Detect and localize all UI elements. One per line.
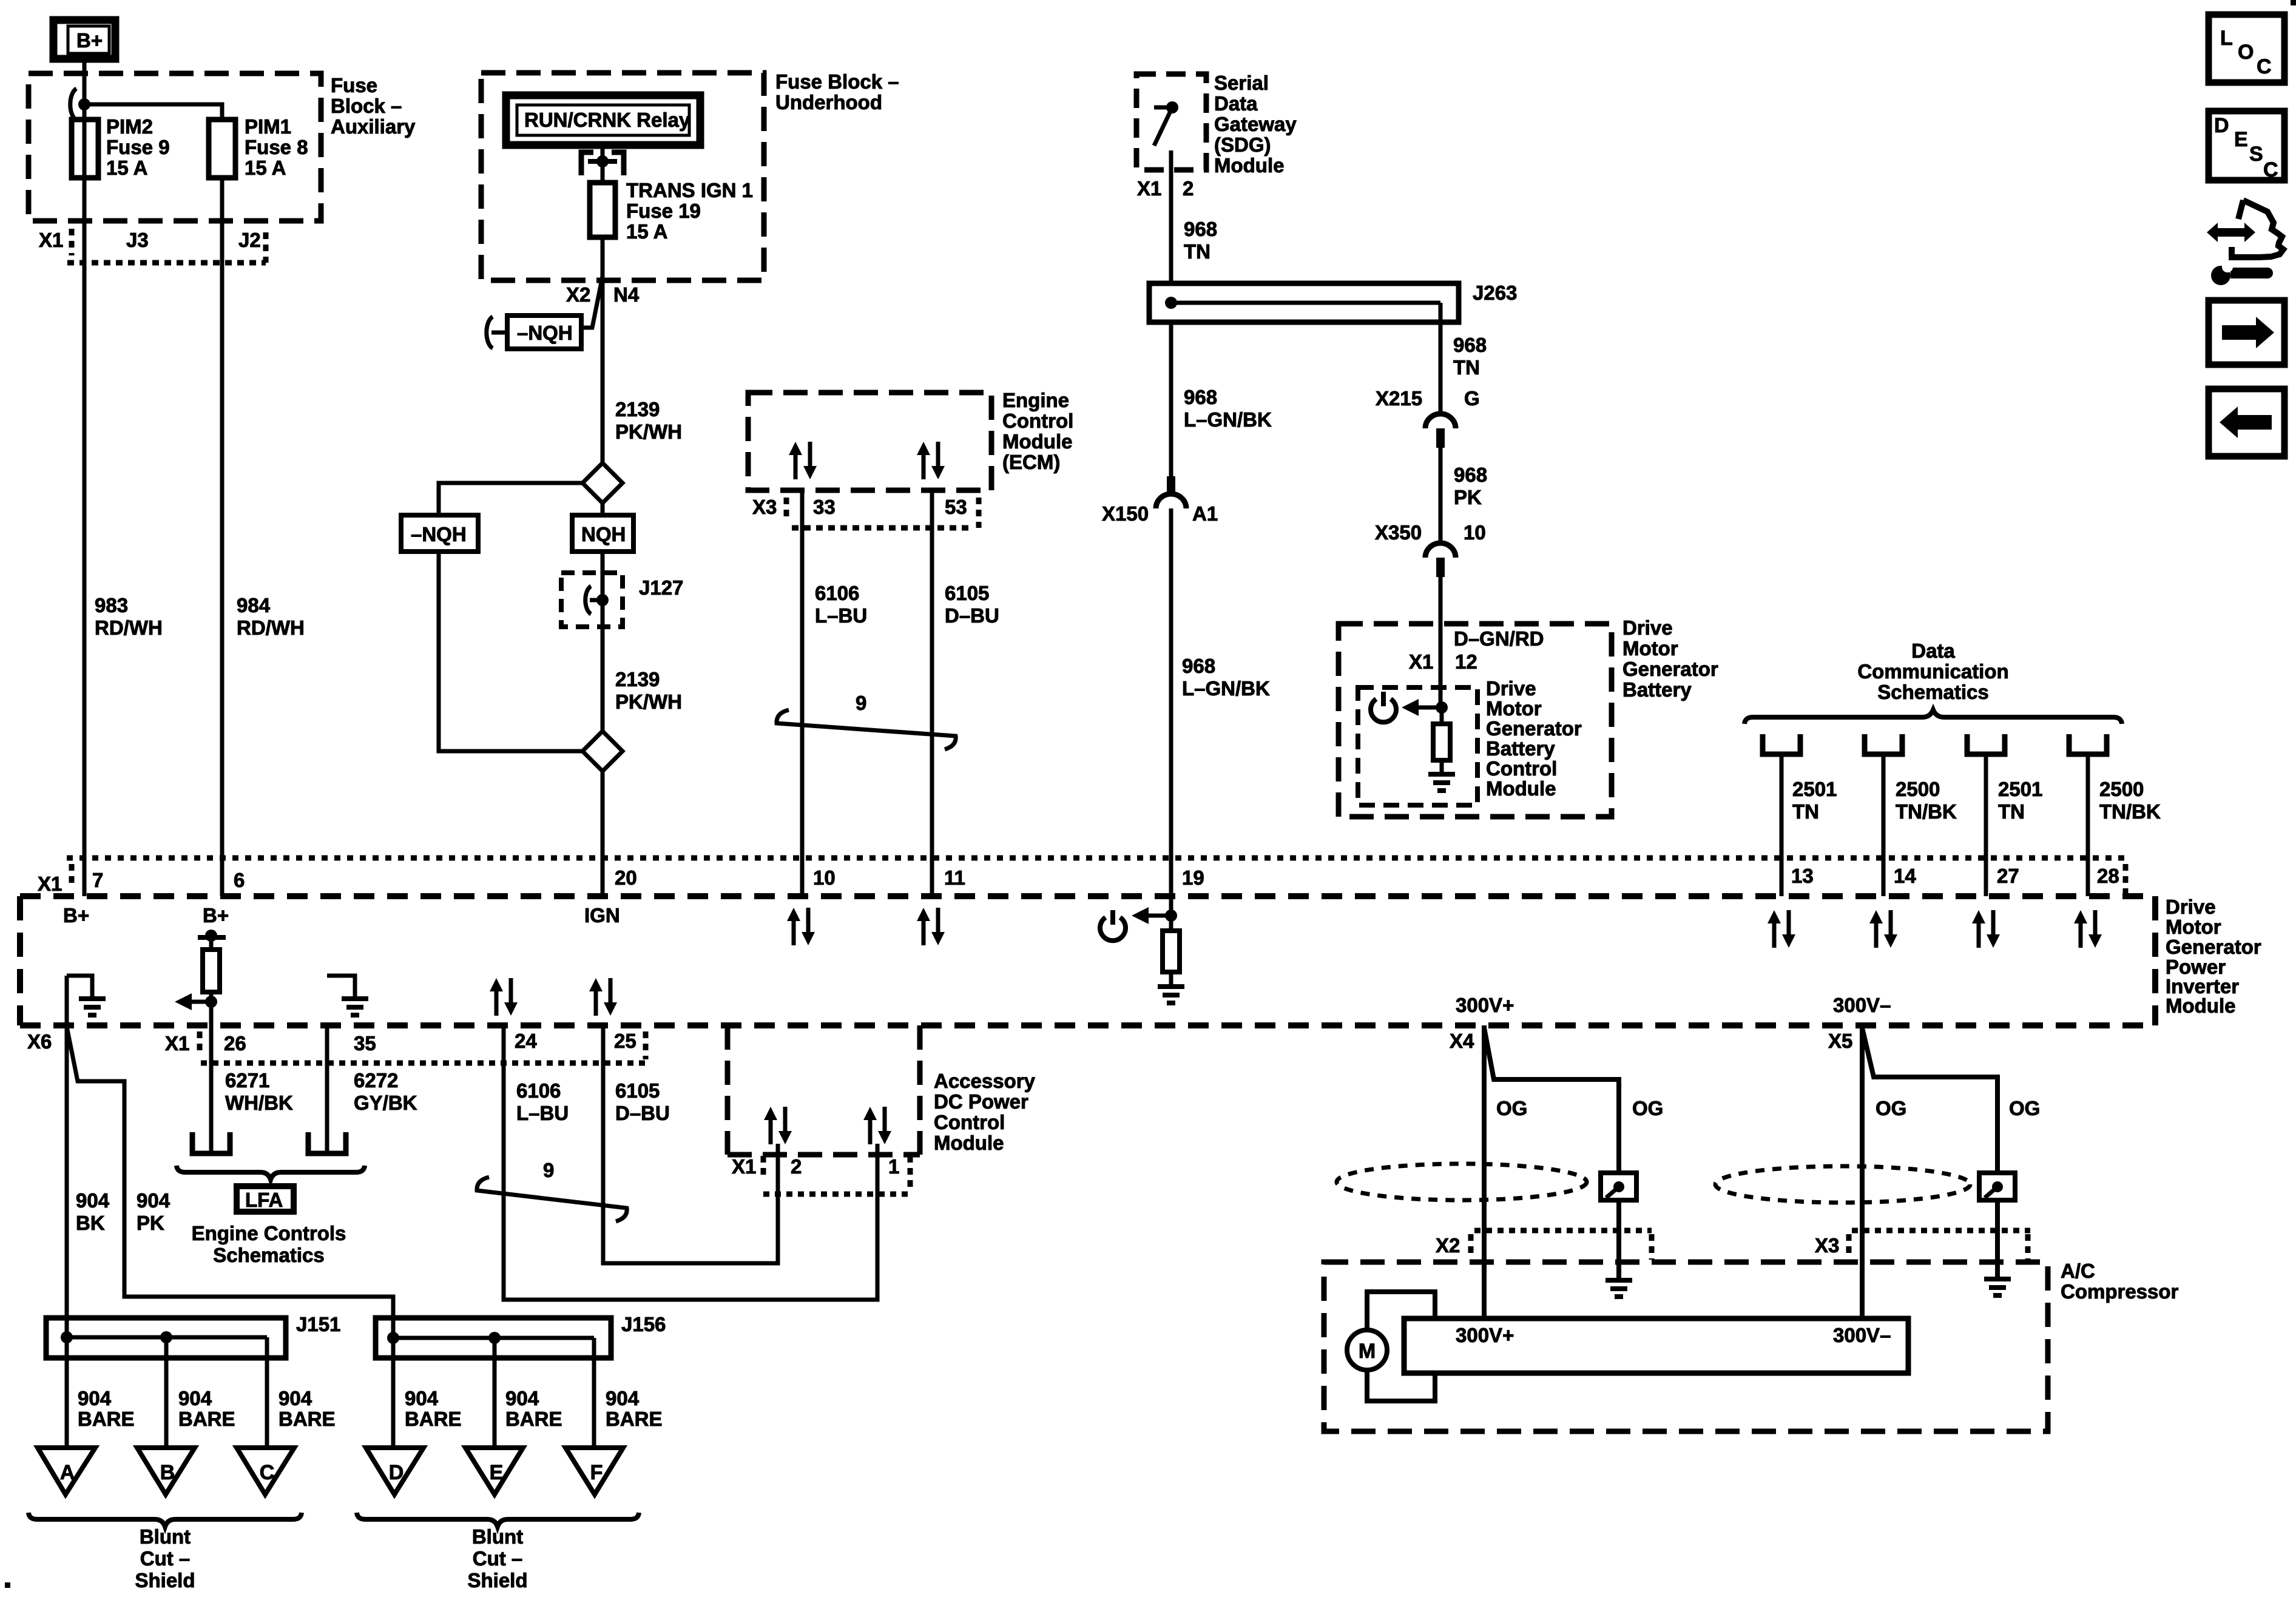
svg-text:J151: J151 [296, 1313, 340, 1335]
label Serial Data Gateway SDG Module [1214, 72, 1297, 177]
resistor pin 19 internal [1163, 896, 1180, 972]
svg-text:Accessory: Accessory [934, 1070, 1036, 1092]
svg-text:Module: Module [934, 1132, 1004, 1154]
icon hand with double arrow [2207, 200, 2283, 257]
pin 25 [614, 1030, 636, 1052]
label wire 2139 PK/WH upper [615, 398, 682, 443]
pin J3 [126, 229, 149, 251]
label OG X5 right [2009, 1097, 2040, 1119]
label Blunt Cut Shield left [135, 1525, 195, 1592]
pin X6 [27, 1030, 52, 1053]
relay RUN/CRNK Relay [506, 95, 700, 145]
compressor 300V bus box [1404, 1318, 1908, 1373]
svg-text:G: G [1464, 387, 1480, 410]
svg-text:Control: Control [1486, 757, 1557, 780]
label 904 BARE A [78, 1387, 135, 1430]
node IGN pin 20 [584, 904, 620, 927]
label Fuse Block Underhood [775, 70, 899, 113]
label A/C Compressor [2061, 1260, 2179, 1303]
svg-text:OG: OG [2009, 1097, 2040, 1119]
svg-text:Drive: Drive [1622, 616, 1673, 639]
svg-text:Drive: Drive [2166, 896, 2216, 918]
label wire 968 L-GN/BK lower [1182, 655, 1270, 700]
power symbol pin 19 [1100, 910, 1126, 940]
svg-text:904: 904 [405, 1387, 439, 1409]
fuse PIM2 Fuse 9 15 A [72, 120, 98, 178]
svg-text:J2: J2 [238, 229, 261, 251]
svg-text:LFA: LFA [245, 1189, 283, 1211]
svg-text:C: C [260, 1461, 275, 1484]
wire lead to -NQH fuse block side [581, 276, 603, 328]
svg-text:Blunt: Blunt [140, 1525, 191, 1548]
svg-text:26: 26 [224, 1032, 246, 1055]
wire fuse 19 down 2139 PK/WH [601, 237, 605, 463]
svg-text:OG: OG [1632, 1097, 1663, 1119]
blunt cut triangle D [366, 1448, 424, 1494]
label Data Communication Schematics [1857, 640, 2008, 703]
svg-text:904: 904 [76, 1189, 110, 1212]
splice pack J156 [376, 1318, 611, 1358]
wire J263 left leg 968 L-GN/BK [1169, 322, 1173, 476]
page dot top right [2291, 0, 2296, 5]
node dot J151 branch B [160, 1331, 172, 1343]
pin X2 [566, 283, 590, 306]
pin J2 [238, 229, 261, 251]
fuse block underhood dashed box [481, 73, 764, 280]
svg-text:RD/WH: RD/WH [237, 616, 305, 639]
label wire 6106 L-BU [815, 582, 867, 627]
svg-text:D: D [2214, 114, 2229, 137]
wire SDG pin 2 down 968 TN [1169, 150, 1173, 283]
label wire 6271 WH/BK [225, 1069, 293, 1114]
svg-text:6271: 6271 [225, 1069, 269, 1092]
svg-text:12: 12 [1455, 650, 1477, 673]
node dot J151 input [61, 1331, 73, 1343]
wire X5 300V- OG main [1860, 1025, 1865, 1318]
svg-text:X350: X350 [1375, 521, 1422, 544]
label wire 983 RD/WH [95, 594, 163, 639]
pin 2 of SDG [1183, 177, 1194, 200]
net -NQH takeout lower [401, 515, 478, 552]
svg-text:Blunt: Blunt [472, 1525, 523, 1548]
wire NQH to J127 [601, 552, 605, 731]
svg-text:D–GN/RD: D–GN/RD [1454, 627, 1544, 650]
node 300V+ label [1456, 994, 1514, 1016]
svg-text:Control: Control [934, 1111, 1005, 1133]
label wire 968 PK [1454, 464, 1487, 508]
pin 1 accessory [888, 1155, 899, 1178]
svg-text:Serial: Serial [1214, 72, 1269, 94]
label wire 6105 D-BU lower [615, 1079, 670, 1124]
label 904 BARE C [279, 1387, 336, 1430]
twisted pair slash upper [777, 710, 956, 749]
svg-text:J127: J127 [639, 576, 683, 599]
svg-text:Auxiliary: Auxiliary [331, 115, 416, 138]
node B+ pin 6 [203, 904, 229, 927]
blunt cut triangle F [566, 1448, 623, 1494]
wire 6106 pin 24 to pin 1 [504, 1025, 877, 1300]
connector hook at B+ junction [70, 89, 76, 120]
svg-text:X1: X1 [165, 1032, 189, 1055]
pin 33 [813, 496, 836, 518]
pin N4 [613, 283, 640, 306]
shield ellipse right [1715, 1166, 1970, 1203]
wire 2501 TN pin 13 [1780, 754, 1784, 896]
svg-text:15 A: 15 A [245, 157, 286, 179]
pin 20 [615, 866, 637, 889]
svg-text:A: A [60, 1461, 75, 1484]
blunt cut triangle C [237, 1448, 294, 1494]
svg-text:X1: X1 [1409, 650, 1433, 673]
svg-text:2139: 2139 [615, 668, 660, 690]
svg-text:X1: X1 [38, 873, 62, 895]
label twisted pair 9 lower [543, 1159, 554, 1181]
pin 28 [2097, 864, 2125, 895]
icon arrow right box [2209, 300, 2284, 365]
svg-text:BARE: BARE [178, 1408, 235, 1430]
ECM dashed box [748, 393, 991, 490]
module io arrows pin 13 [1768, 910, 1795, 948]
module io arrows pin 24 [490, 978, 518, 1016]
battery control module inner dashed box [1358, 687, 1477, 805]
net -NQH takeout upper [507, 316, 581, 349]
svg-text:904: 904 [178, 1387, 212, 1409]
connector row dotted line top [67, 856, 2130, 861]
resistor B+ internal [203, 950, 220, 992]
label J127 [639, 576, 683, 599]
label wire 2139 PK/WH lower [615, 668, 682, 713]
label wire D-GN/RD [1454, 627, 1544, 650]
arrow left at B+ internal junction [175, 993, 211, 1010]
svg-text:Cut –: Cut – [140, 1547, 191, 1570]
svg-text:M: M [1359, 1340, 1376, 1363]
node dot J156 branch E [488, 1332, 501, 1344]
svg-text:13: 13 [1791, 865, 1814, 887]
module io arrows pin 27 [1972, 910, 2000, 948]
svg-text:N4: N4 [613, 283, 640, 306]
svg-text:TN: TN [1792, 800, 1819, 823]
connector hook inside J127 [586, 586, 603, 614]
wire 904 BARE to triangle D [391, 1338, 396, 1453]
svg-text:9: 9 [856, 692, 866, 714]
label OG X5 left [1876, 1097, 1906, 1119]
svg-text:E: E [490, 1461, 504, 1484]
wire 2500 TN/BK pin 14 [1882, 754, 1886, 896]
ground in battery control module [1428, 760, 1455, 791]
svg-text:968: 968 [1453, 334, 1487, 356]
svg-text:35: 35 [354, 1032, 376, 1055]
drive motor generator battery dashed box [1339, 624, 1612, 817]
svg-text:TN: TN [1998, 800, 2025, 823]
wire resistor to junction [209, 992, 214, 1025]
svg-text:53: 53 [945, 496, 967, 518]
svg-text:Cut –: Cut – [473, 1547, 523, 1570]
svg-text:Engine Controls: Engine Controls [192, 1222, 346, 1244]
connector cup pin 14 [1865, 734, 1902, 754]
connector X3 row [1815, 1230, 2030, 1260]
node dot B+ internal junction [205, 996, 217, 1008]
svg-text:Fuse: Fuse [331, 74, 377, 96]
pin 19 [1182, 866, 1204, 889]
svg-text:PIM2: PIM2 [106, 115, 153, 138]
node dot at fuse clip [596, 155, 609, 167]
connector X1 row bottom left [165, 1031, 647, 1063]
svg-text:BARE: BARE [606, 1408, 663, 1430]
svg-text:27: 27 [1997, 865, 2019, 887]
svg-text:Shield: Shield [467, 1569, 527, 1592]
svg-text:Module: Module [1002, 430, 1072, 453]
label Engine Controls Schematics [192, 1222, 346, 1266]
svg-text:983: 983 [95, 594, 128, 616]
svg-text:Shield: Shield [135, 1569, 195, 1592]
svg-text:Compressor: Compressor [2061, 1280, 2179, 1303]
svg-text:2: 2 [1183, 177, 1194, 200]
blunt cut triangle B [137, 1448, 195, 1494]
svg-text:–NQH: –NQH [517, 322, 573, 344]
svg-text:Schematics: Schematics [1877, 681, 1988, 703]
label wire 968 L-GN/BK upper [1184, 386, 1272, 431]
connector X215 G [1376, 387, 1480, 448]
svg-text:Battery: Battery [1486, 737, 1555, 760]
label Drive Motor Generator Power Inverter Module [2166, 896, 2261, 1017]
node junction dot at B+ split [78, 98, 90, 110]
svg-text:Data: Data [1214, 92, 1258, 115]
svg-text:L–BU: L–BU [516, 1102, 569, 1124]
connector X1 row accessory [732, 1155, 912, 1194]
svg-text:6106: 6106 [516, 1079, 561, 1102]
svg-text:OG: OG [1876, 1097, 1906, 1119]
svg-text:D–BU: D–BU [615, 1102, 670, 1124]
svg-text:6272: 6272 [354, 1069, 398, 1092]
svg-text:Generator: Generator [1486, 717, 1582, 740]
svg-text:X1: X1 [39, 229, 63, 251]
svg-text:6: 6 [234, 869, 245, 891]
svg-text:BARE: BARE [279, 1408, 336, 1430]
label Drive Motor Generator Battery [1622, 616, 1718, 701]
svg-text:X5: X5 [1828, 1030, 1852, 1052]
pin X4 label [1450, 1030, 1474, 1052]
svg-text:D–BU: D–BU [945, 604, 999, 627]
wire relay to fuse 19 [601, 145, 605, 183]
accessory dc power control module dashed box [728, 1025, 920, 1155]
wire X350 to battery module D-GN/RD [1439, 577, 1443, 707]
svg-text:L: L [2220, 27, 2233, 50]
label 904 BARE E [505, 1387, 562, 1430]
ground shield right [1984, 1279, 2011, 1295]
svg-text:PK/WH: PK/WH [615, 690, 682, 713]
svg-text:C: C [2257, 55, 2272, 78]
svg-text:1: 1 [888, 1155, 899, 1178]
pin X1 of SDG [1137, 177, 1161, 200]
svg-text:7: 7 [92, 869, 103, 891]
B+ power node box [53, 20, 115, 59]
svg-text:Generator: Generator [2166, 936, 2261, 958]
svg-text:RD/WH: RD/WH [95, 616, 163, 639]
svg-text:A/C: A/C [2061, 1260, 2095, 1282]
svg-text:J156: J156 [621, 1313, 666, 1335]
svg-text:PK/WH: PK/WH [615, 420, 682, 443]
label 904 BARE D [405, 1387, 462, 1430]
wire diamond to NQH [601, 503, 605, 515]
svg-text:D: D [389, 1461, 404, 1484]
svg-text:15 A: 15 A [106, 157, 147, 179]
label J156 [621, 1313, 666, 1335]
svg-text:E: E [2234, 128, 2248, 151]
svg-text:6105: 6105 [615, 1079, 660, 1102]
pin 10 [813, 866, 836, 889]
svg-text:RUN/CRNK Relay: RUN/CRNK Relay [524, 109, 690, 131]
connector cup pin 35 [308, 1132, 346, 1153]
wire branch to -NQH lower [439, 483, 582, 515]
motor M leads [1367, 1292, 1435, 1401]
wire fuse 8 down [220, 178, 225, 896]
node 300V+ compressor [1456, 1324, 1514, 1346]
pin 13 [1791, 865, 1814, 887]
icon arrow left box [2209, 389, 2284, 456]
svg-text:C: C [2263, 158, 2278, 181]
svg-text:Data: Data [1911, 640, 1955, 662]
svg-text:968: 968 [1454, 464, 1487, 486]
B+ internal tap bar with dot [198, 930, 226, 950]
module io arrows pin 28 [2074, 910, 2102, 948]
wire J263 right leg 968 TN [1439, 303, 1443, 413]
fuse PIM1 Fuse 8 15 A [209, 120, 235, 178]
label wire 6105 D-BU [945, 582, 999, 627]
connector X2 row [1436, 1230, 1652, 1260]
svg-text:NQH: NQH [581, 523, 626, 545]
pin 14 [1894, 865, 1916, 887]
svg-text:Motor: Motor [2166, 916, 2221, 938]
pin X1 of inverter module top [38, 864, 72, 895]
label TRANS IGN 1 Fuse 19 15 A [626, 179, 753, 243]
wire 904 BARE to triangle F [592, 1338, 596, 1453]
net NQH takeout [572, 515, 633, 552]
ECM io arrows pin 33 [789, 442, 817, 479]
label wire 2500 TN/BK first [1896, 778, 1957, 823]
svg-text:Module: Module [2166, 994, 2235, 1017]
svg-text:(ECM): (ECM) [1002, 451, 1060, 473]
svg-text:Control: Control [1002, 410, 1073, 432]
fuse block auxiliary dashed box [29, 73, 321, 221]
svg-text:2501: 2501 [1792, 778, 1837, 800]
svg-text:X215: X215 [1376, 387, 1422, 410]
pin 35 [354, 1032, 376, 1055]
connector cup pin 28 [2069, 734, 2107, 754]
splice pack J151 [46, 1318, 286, 1358]
svg-text:GY/BK: GY/BK [354, 1092, 417, 1114]
svg-text:300V+: 300V+ [1456, 1324, 1514, 1346]
svg-text:Fuse Block –: Fuse Block – [775, 70, 899, 93]
svg-text:X1: X1 [1137, 177, 1161, 200]
wire X150 to pin 19 968 L-GN/BK [1169, 508, 1173, 896]
splice pack J263 [1149, 283, 1459, 322]
label wire 968 TN right [1453, 334, 1487, 379]
brace blunt cut shield left [29, 1513, 302, 1527]
icon LOC box [2209, 15, 2284, 83]
label J263 [1473, 282, 1517, 304]
svg-text:2139: 2139 [615, 398, 660, 420]
svg-text:968: 968 [1184, 386, 1217, 408]
svg-text:2501: 2501 [1998, 778, 2042, 800]
accessory io arrows pin 1 [863, 1107, 891, 1144]
wire 6106 L-BU from pin 33 [800, 490, 805, 896]
svg-text:904: 904 [606, 1387, 640, 1409]
node 300V- compressor [1833, 1324, 1891, 1346]
label OG X4 right [1632, 1097, 1663, 1119]
module io arrows pin 11 [917, 908, 945, 945]
svg-text:BARE: BARE [505, 1408, 562, 1430]
wire 904 BARE to triangle A [65, 1337, 69, 1453]
svg-text:Engine: Engine [1002, 389, 1069, 411]
svg-text:2500: 2500 [1896, 778, 1940, 800]
connector cup pin 27 [1967, 734, 2005, 754]
svg-text:–NQH: –NQH [411, 523, 467, 545]
svg-text:904: 904 [505, 1387, 539, 1409]
svg-text:S: S [2249, 143, 2263, 166]
blunt cut triangle A [38, 1448, 95, 1494]
svg-text:9: 9 [543, 1159, 554, 1181]
svg-text:Drive: Drive [1486, 677, 1536, 700]
svg-text:Motor: Motor [1486, 697, 1542, 720]
brace engine controls [177, 1166, 365, 1180]
svg-text:X6: X6 [27, 1030, 52, 1053]
wire 904 BARE to triangle B [164, 1337, 169, 1453]
node B+ pin 7 [63, 904, 89, 927]
fuse TRANS IGN 1 Fuse 19 15 A [590, 183, 615, 237]
ground pin 35 internal [327, 976, 368, 1015]
svg-text:904: 904 [279, 1387, 312, 1409]
pin X1 of battery control module [1409, 650, 1433, 673]
svg-text:X3: X3 [1815, 1234, 1839, 1257]
svg-text:300V+: 300V+ [1456, 994, 1514, 1016]
wire 904 BARE to triangle E [493, 1338, 497, 1453]
svg-text:BARE: BARE [78, 1408, 135, 1430]
wire 904 BARE to triangle C [265, 1337, 269, 1453]
svg-text:X2: X2 [566, 283, 590, 306]
label Accessory DC Power Control Module [934, 1070, 1036, 1154]
connector cup pin 13 [1763, 734, 1800, 754]
label PIM2 Fuse 9 15 A [106, 115, 170, 179]
accessory io arrows pin 2 [764, 1107, 792, 1144]
svg-text:IGN: IGN [584, 904, 620, 927]
svg-text:Motor: Motor [1622, 637, 1678, 660]
wire -NQH lower to diamond [439, 552, 582, 751]
label PIM1 Fuse 8 15 A [245, 115, 308, 179]
wire X6 shield drain 904 BK [65, 976, 69, 1337]
wire B+ feed vertical [83, 59, 87, 896]
label wire 6106 L-BU lower [516, 1079, 569, 1124]
module io arrows pin 25 [589, 978, 617, 1016]
svg-text:968: 968 [1184, 218, 1217, 240]
label wire 984 RD/WH [237, 594, 305, 639]
label J151 [296, 1313, 340, 1335]
pin 7 [92, 869, 103, 891]
svg-text:Underhood: Underhood [775, 91, 882, 113]
connector X150 A1 [1102, 476, 1218, 525]
brace data communication [1744, 710, 2122, 724]
svg-text:TN: TN [1184, 240, 1210, 263]
svg-text:19: 19 [1182, 866, 1204, 889]
splice J127 dashed box [561, 573, 623, 627]
fuse holder clip below relay [581, 152, 624, 175]
wire branch 904 PK [67, 1027, 393, 1338]
label Engine Control Module ECM [1002, 389, 1073, 473]
svg-text:904: 904 [78, 1387, 112, 1409]
wire diamond to pin 20 [601, 771, 605, 896]
wire X215 to X350 968 PK [1439, 448, 1443, 542]
svg-text:B+: B+ [63, 904, 89, 927]
svg-text:BARE: BARE [405, 1408, 462, 1430]
